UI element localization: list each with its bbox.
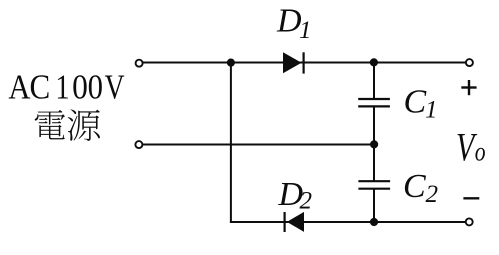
svg-text:1: 1 [425, 97, 438, 124]
diode D1 cathode bar [303, 52, 305, 73]
wire: left vertical from node A down to bottom wire [230, 63, 232, 223]
label: AC 100V source text [8, 67, 125, 107]
svg-text:0: 0 [88, 69, 103, 107]
diode D1 (anode left, cathode right) triangle [283, 52, 302, 73]
svg-text:o: o [475, 137, 486, 167]
node C junction dot (middle right) [370, 140, 378, 148]
terminal: AC input bottom (open circle) [135, 141, 142, 148]
node B junction dot (top right) [370, 58, 378, 66]
svg-text:2: 2 [426, 181, 439, 208]
wire: right vertical node B to C1 top plate [373, 63, 375, 100]
svg-text:A: A [8, 68, 30, 106]
svg-text:1: 1 [299, 17, 312, 44]
terminal: AC input top (open circle) [136, 60, 143, 67]
output polarity - sign [463, 197, 479, 199]
diode D2 cathode bar [284, 212, 286, 232]
capacitor C1 bottom plate [358, 105, 390, 107]
terminal: output + (open circle) [466, 59, 473, 66]
svg-text:V: V [105, 67, 125, 106]
svg-text:C: C [404, 84, 427, 121]
svg-text:1: 1 [55, 68, 69, 106]
svg-text:C: C [403, 168, 426, 205]
node A junction dot (top left) [227, 59, 235, 67]
capacitor C2 bottom plate [358, 188, 390, 190]
capacitor C2 top plate [358, 180, 390, 182]
diode D2 (anode right, cathode left) triangle [287, 212, 304, 232]
wire: right vertical C1 bottom plate to C2 top plate [373, 106, 375, 181]
wire: top horizontal (AC top terminal to output +) [143, 62, 466, 64]
label: 電源 (power source) glyph 電 [35, 110, 65, 139]
output polarity + sign [461, 80, 476, 95]
capacitor C1 top plate [358, 98, 390, 100]
svg-text:C: C [29, 69, 50, 107]
svg-text:2: 2 [300, 188, 313, 215]
svg-text:0: 0 [72, 68, 88, 107]
node D junction dot (bottom right) [370, 218, 378, 226]
wire: middle horizontal (AC bottom terminal to node C) [143, 144, 374, 146]
terminal: output - (open circle) [466, 218, 473, 225]
label: 電源 (power source) glyph 源 [68, 109, 100, 141]
wire: bottom horizontal (node A leg to output -) [230, 221, 466, 223]
wire: right vertical C2 bottom plate to bottom wire [373, 189, 375, 222]
